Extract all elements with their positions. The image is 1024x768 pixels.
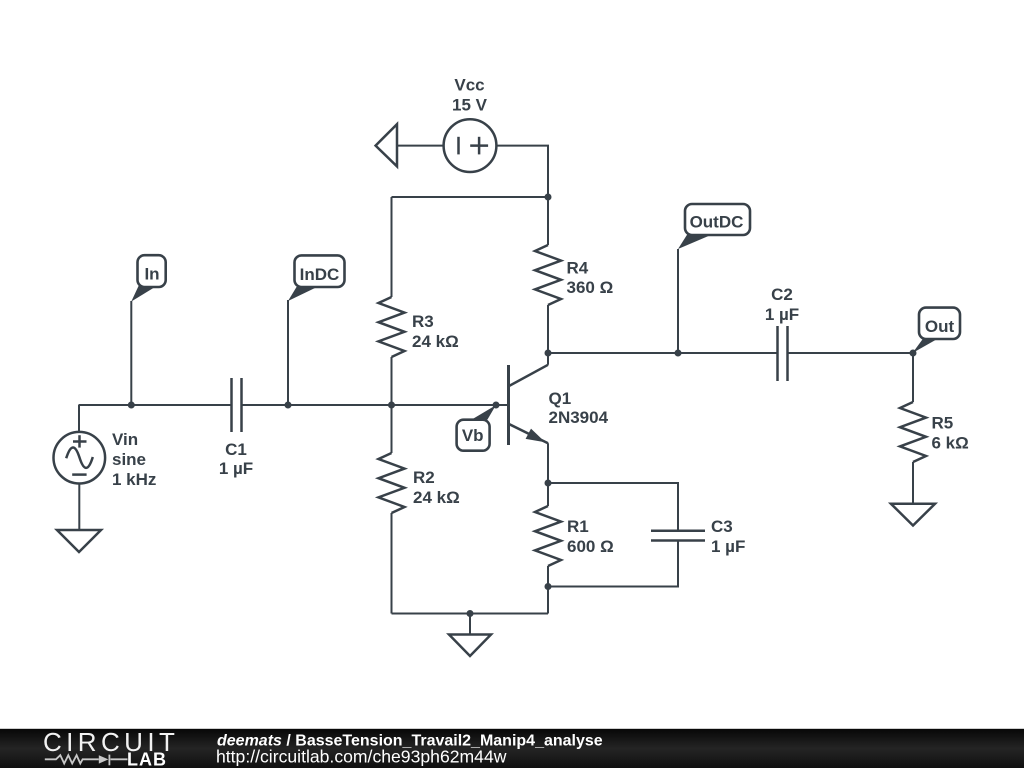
svg-text:2N3904: 2N3904 (549, 408, 609, 427)
wire R3 bottom lead (391, 357, 393, 405)
svg-text:C1: C1 (225, 440, 247, 459)
junction node OutDC (675, 350, 682, 357)
svg-text:600 Ω: 600 Ω (567, 537, 614, 556)
svg-text:1 µF: 1 µF (711, 537, 745, 556)
ground (bottom center) (449, 635, 491, 657)
svg-text:Vcc: Vcc (454, 76, 484, 95)
svg-text:R5: R5 (932, 414, 954, 433)
svg-text:Vin: Vin (112, 430, 138, 449)
svg-text:In: In (144, 265, 159, 284)
ground (Vin) (57, 530, 101, 552)
footer bar (0, 729, 1024, 768)
junction node In (128, 402, 135, 409)
svg-text:http://circuitlab.com/che93ph6: http://circuitlab.com/che93ph62m44w (216, 747, 507, 767)
Vcc antenna triangle (376, 124, 397, 166)
svg-text:24 kΩ: 24 kΩ (412, 332, 459, 351)
wire collector row y=353 left of C2 (548, 352, 778, 354)
node flag Out (913, 308, 961, 353)
resistor R5 (900, 402, 926, 462)
transistor Q1 2N3904 (509, 365, 549, 445)
svg-text:Out: Out (925, 317, 955, 336)
junction node InDC (285, 402, 292, 409)
wire Vcc antenna to source (397, 145, 444, 147)
junction node R3/R2 (388, 402, 395, 409)
svg-text:OutDC: OutDC (690, 212, 744, 231)
svg-text:sine: sine (112, 450, 146, 469)
wire R2 top lead (391, 405, 393, 453)
wire Vin bottom lead to ground (78, 483, 80, 530)
wire main input row y=405 right of C1 (242, 404, 509, 406)
wire Vin top lead (78, 405, 80, 433)
voltage source Vin sine (54, 432, 106, 484)
junction node emitter (545, 480, 552, 487)
junction node collector (545, 350, 552, 357)
resistor R3 (379, 297, 405, 357)
wire emitter vertical (547, 443, 549, 506)
svg-text:6 kΩ: 6 kΩ (932, 433, 969, 452)
resistor R4 (535, 245, 561, 305)
wire bottom rail y=613.5 (392, 613, 549, 615)
svg-text:24 kΩ: 24 kΩ (413, 488, 460, 507)
ground (R5) (891, 504, 935, 526)
junction node R1 bottom (545, 583, 552, 590)
voltage source Vcc 15V (444, 119, 497, 172)
CircuitLab logo resistor-diode symbol (45, 755, 128, 766)
node flag OutDC (678, 204, 750, 249)
node flag In (131, 255, 165, 301)
capacitor C1 (232, 378, 242, 432)
junction node base Vb (493, 402, 500, 409)
capacitor C3 (651, 531, 705, 541)
svg-text:C2: C2 (771, 285, 793, 304)
svg-text:Vb: Vb (462, 426, 484, 445)
capacitor C2 (778, 326, 788, 381)
svg-text:15 V: 15 V (452, 95, 488, 114)
svg-text:InDC: InDC (300, 265, 340, 284)
wire collector row y=353 right of C2 (788, 352, 914, 354)
wire R4 top lead (547, 197, 549, 245)
svg-text:1 kHz: 1 kHz (112, 470, 156, 489)
wire Vcc source to corner and down (496, 146, 548, 197)
wire R5 bottom lead to ground (912, 462, 914, 504)
wire InDC flag stem (287, 300, 289, 405)
svg-text:1 µF: 1 µF (219, 459, 253, 478)
svg-text:R2: R2 (413, 468, 435, 487)
wire OutDC flag stem (677, 249, 679, 353)
resistor R2 (379, 453, 405, 513)
node flag Vb (457, 405, 496, 450)
junction node Out (910, 350, 917, 357)
wire R1 bottom lead (547, 566, 549, 614)
wire ground stem bottom center (469, 614, 471, 635)
svg-text:1 µF: 1 µF (765, 305, 799, 324)
wire In flag stem (130, 301, 132, 405)
wire R3 top lead (391, 197, 393, 297)
wire main input row y=405 left of C1 (79, 404, 232, 406)
svg-text:R1: R1 (567, 517, 589, 536)
svg-text:C3: C3 (711, 517, 733, 536)
wire R4 bottom lead / collector vertical (547, 305, 549, 365)
svg-text:LAB: LAB (127, 750, 167, 768)
wire top rail y=197 (392, 196, 549, 198)
junction node Vcc rail (545, 194, 552, 201)
wire emitter row y=483 to C3 (548, 483, 678, 530)
svg-text:R4: R4 (567, 259, 589, 278)
svg-text:360 Ω: 360 Ω (567, 278, 614, 297)
svg-text:R3: R3 (412, 312, 434, 331)
resistor R1 (535, 506, 561, 566)
wire R2 bottom lead (391, 513, 393, 614)
svg-text:Q1: Q1 (549, 389, 572, 408)
wire Out to R5 top lead (912, 353, 914, 402)
node flag InDC (288, 255, 345, 301)
wire C3 bottom lead (548, 541, 678, 587)
junction node ground rail (467, 610, 474, 617)
